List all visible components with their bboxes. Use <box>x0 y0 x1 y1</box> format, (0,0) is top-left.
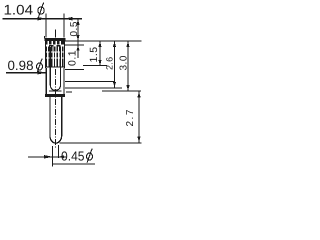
svg-text:0.5: 0.5 <box>69 21 80 36</box>
extension line tip right <box>58 145 60 158</box>
label 0.98 dia text <box>8 58 34 73</box>
0.45 dimension line <box>28 156 66 158</box>
bottom reference line L9 <box>60 142 142 144</box>
knurl stripe row 3 <box>46 59 63 67</box>
svg-text:1.04: 1.04 <box>4 2 34 18</box>
short tick at head bottom right <box>66 91 72 93</box>
shaft left wall <box>49 97 51 137</box>
bore hidden line right <box>60 47 62 85</box>
knurl stripe row 2 <box>46 53 63 58</box>
pin head left wall lower <box>45 68 47 95</box>
svg-text:2.6: 2.6 <box>105 57 115 70</box>
bore bottom U curve <box>50 84 60 90</box>
svg-text:1.5: 1.5 <box>88 46 100 62</box>
svg-text:2.7: 2.7 <box>125 108 136 126</box>
dimension 2.6 vertical <box>114 41 116 88</box>
svg-text:0.1: 0.1 <box>67 50 79 66</box>
knurl bottom edge <box>45 66 65 68</box>
extension line L6 inner feature <box>65 81 115 83</box>
pin head bottom thick bar <box>45 94 65 97</box>
arrow right of 1.04 dim pointing left <box>64 17 73 21</box>
extension line tip left <box>51 146 53 167</box>
text 0.5 rotated <box>69 21 80 36</box>
centerline through body dash-dot <box>54 69 56 149</box>
phi symbol for 1.04 <box>38 3 44 17</box>
knurl stripe row 1 <box>46 46 63 51</box>
svg-text:0.45: 0.45 <box>61 149 85 164</box>
arrow to left tip edge <box>44 155 52 159</box>
svg-text:3.0: 3.0 <box>119 55 130 70</box>
dimension line L1 for 1.04 dia <box>3 18 83 20</box>
dimension 3.0 vertical <box>127 41 129 91</box>
pin head right wall upper <box>64 38 66 68</box>
arrow 0.98 pointing right <box>38 71 47 75</box>
groove gap dash right <box>57 45 61 47</box>
extension line L5 step shoulder <box>65 68 84 70</box>
pin head top bar <box>45 38 66 41</box>
pin head top corner tick <box>44 36 46 39</box>
pin head left wall upper <box>44 38 46 68</box>
groove gap dash left <box>49 45 54 47</box>
underline of 0.45 label <box>53 163 95 165</box>
text 2.7 rotated <box>125 108 136 126</box>
extension line L7 bore bottom <box>65 87 122 89</box>
dimension 2.7 vertical <box>138 91 140 142</box>
label 0.45 dia text <box>61 149 85 164</box>
pin head right wall lower <box>63 68 65 95</box>
arrow down to L2 <box>76 35 79 41</box>
leader line 0.98 <box>6 72 46 74</box>
pin head dark collar band with slits <box>45 41 65 45</box>
svg-text:0.98: 0.98 <box>8 58 34 73</box>
phi symbol for 0.45 <box>87 149 93 163</box>
text 2.6 rotated <box>105 57 115 70</box>
text 3.0 rotated <box>119 55 130 70</box>
text 1.5 rotated <box>88 46 100 62</box>
text 0.1 rotated <box>67 50 79 66</box>
extension line right head edge <box>63 14 65 38</box>
arrow up to L1 <box>76 19 79 25</box>
phi symbol for 0.98 <box>37 59 43 73</box>
arrow up to L3 (0.1 outside arrow) <box>76 45 79 50</box>
extension line L4 knurl end <box>83 65 107 67</box>
dimension 1.5 vertical <box>99 41 101 66</box>
shaft rounded tip <box>50 136 62 143</box>
label 1.04 dia text <box>4 2 34 18</box>
extension line L3 groove bottom <box>65 44 84 46</box>
bore hidden line left <box>49 47 51 85</box>
dimension vertical 0.5 / 0.1 at x=78 <box>77 19 79 58</box>
extension line left head edge <box>45 14 47 38</box>
shaft right wall <box>61 97 63 137</box>
arrow to right tip edge <box>59 155 64 158</box>
centerline above pin <box>54 30 56 38</box>
extension line L8 head reference <box>102 90 141 92</box>
arrow left of 1.04 dim pointing right <box>38 17 47 21</box>
extension line L2 from head top groove <box>65 40 142 42</box>
bore bottom cross tick <box>49 90 62 92</box>
